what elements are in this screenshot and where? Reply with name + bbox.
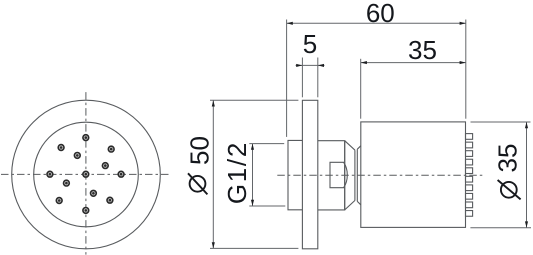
arrow 5 left (outside, pointing right) [296,64,302,67]
svg-text:G1/2: G1/2 [222,141,252,204]
dimension texts [185,0,523,204]
inner D-detail [330,162,347,187]
nut right face [344,141,346,210]
diameter symbol of O35 [498,180,521,199]
nozzle left [47,171,53,177]
nozzle top [83,135,89,141]
back body (G1/2 connection) [288,140,302,209]
arrowheads [212,22,528,249]
svg-text:5: 5 [303,29,317,59]
front view vertical centerline [85,92,87,255]
arrow O35 top [525,122,528,128]
neck wall 2 [356,149,358,201]
chamfer top [357,146,361,149]
dim G1/2 ext top [249,143,284,145]
nozzle inner right [102,163,108,169]
nozzle inner left-low [64,180,70,186]
arrow G1/2 top [251,144,254,150]
dim Ø35 ext bottom [470,227,531,229]
svg-text:35: 35 [408,35,437,65]
svg-text:35: 35 [493,144,523,173]
dim 60/35 ext right [465,20,467,119]
dim 35 line [361,62,466,64]
arrow 35 left [361,61,367,64]
wall plate (5mm) [302,100,317,249]
dim Ø35 ext top [471,121,531,123]
nozzle top-left [58,145,64,151]
nut section [318,141,345,210]
dim Ø50 line [212,100,214,248]
cone slant bottom [345,200,355,210]
arrow O35 bottom [525,221,528,227]
dim Ø50 ext bottom [210,247,298,249]
side view centerline [277,174,484,176]
front view outer circle (Ø50 plate) [12,100,161,249]
diameter symbol of O50 [188,173,207,194]
nozzle center [83,171,89,177]
neck wall 1 [354,150,356,200]
dim 35 ext left [360,59,362,119]
nozzles: ring + center dot [47,135,124,214]
nozzle top-right [108,146,114,152]
nozzle right [118,171,124,177]
svg-text:50: 50 [185,136,215,165]
arrow 35 right [460,61,466,64]
arrow 60 left [287,22,293,25]
front view horizontal centerline [1,173,169,175]
main body cylinder (Ø35 x 35) [361,122,466,227]
arrow G1/2 bottom [251,200,254,206]
dim 5 ext left [301,58,303,98]
dim 60 line [287,22,466,24]
arrow O50 bottom [212,242,215,248]
dim G1/2 ext bottom [249,205,285,207]
chamfer bottom [357,201,361,204]
nozzle inner down-right [91,190,97,196]
arrow 5 right (outside, pointing left) [318,64,324,67]
nozzle bottom-left [56,198,62,204]
front view inner circle [34,122,139,227]
dim 5 line [296,64,325,66]
dim G1/2 line [252,144,254,206]
dim Ø50 ext top [210,99,298,101]
nozzle bottom-right [107,197,113,203]
cone slant top [345,141,355,151]
nozzle bottom [83,208,89,214]
knurl teeth [466,134,473,140]
svg-text:60: 60 [366,0,395,28]
arrow O50 top [212,100,215,106]
dim 5 ext right [317,58,319,98]
dim Ø35 line [526,122,528,228]
dim 60 ext left [286,20,288,137]
SIDE VIEW [288,100,473,249]
arrow 60 right [460,22,466,25]
nozzle inner up-left [74,153,80,159]
DIMENSIONS [210,20,531,249]
